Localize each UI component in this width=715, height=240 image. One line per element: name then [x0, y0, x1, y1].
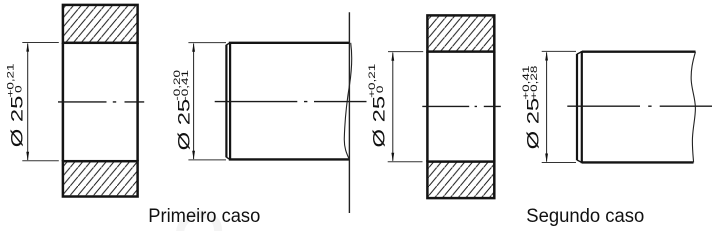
svg-text:0: 0 [375, 85, 386, 93]
svg-text:Ø 25: Ø 25 [370, 96, 389, 148]
svg-text:Ø 25: Ø 25 [175, 99, 194, 151]
svg-text:Primeiro caso: Primeiro caso [148, 206, 260, 227]
svg-text:+0,28: +0,28 [529, 66, 540, 100]
svg-text:Ø 25: Ø 25 [524, 98, 543, 150]
svg-text:0: 0 [13, 85, 24, 93]
svg-text:Segundo caso: Segundo caso [526, 206, 644, 227]
svg-text:-0,41: -0,41 [180, 70, 191, 101]
svg-text:Ø 25: Ø 25 [8, 96, 27, 148]
